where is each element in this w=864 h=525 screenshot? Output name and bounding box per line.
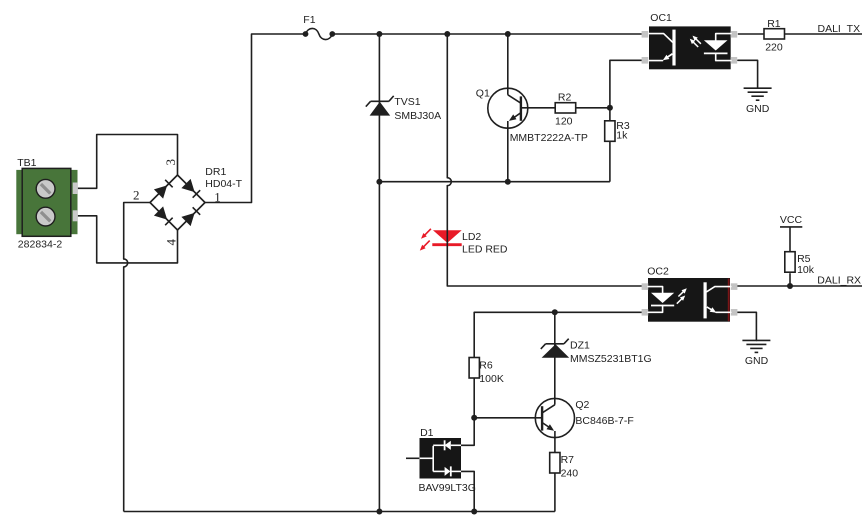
svg-text:LED RED: LED RED (462, 244, 508, 256)
svg-text:Q1: Q1 (476, 87, 490, 99)
fuse F1 (306, 28, 333, 39)
wire OC2 pin 4 to GND (736, 312, 756, 340)
OC2 light arrows (678, 291, 684, 297)
junction bottom rail TVS (376, 509, 382, 515)
wire junction up to OC1 pin 2 (610, 60, 642, 121)
dual diode D1 body (420, 438, 462, 479)
svg-text:R1: R1 (767, 18, 781, 30)
bridge rectifier DR1 outline (150, 175, 205, 230)
wire bridge pin 1 to top rail / fuse (205, 34, 306, 203)
TB1 pad pin 2 (73, 210, 78, 221)
wire R5 bottom to DALI_RX junction (789, 273, 791, 286)
resistor R5 (785, 252, 795, 273)
svg-text:OC1: OC1 (650, 12, 672, 24)
wire continues below hop (123, 267, 125, 512)
terminal block TB1 outlined body (22, 168, 71, 236)
wire Q1 base to R2 (521, 107, 555, 109)
svg-text:R7: R7 (561, 454, 575, 466)
svg-text:Q2: Q2 (575, 399, 589, 411)
wire hop at (447,182) (447, 178, 451, 186)
OC2 pin 2 (642, 309, 649, 316)
resistor R1 (764, 29, 785, 39)
wire fuse F1 to OC1 pin 1 (332, 33, 642, 35)
wire LD2 vertical upper part (446, 34, 448, 178)
transistor Q1 (488, 88, 528, 128)
TB1 screw 2 (36, 207, 55, 226)
svg-text:220: 220 (765, 41, 783, 53)
svg-text:10k: 10k (797, 264, 815, 276)
D1 bottom diode (433, 470, 444, 472)
wire R2 to R3 junction (576, 107, 610, 109)
resistor R2 (555, 103, 576, 113)
junction Q1 emitter (505, 179, 511, 185)
junction TVS1 top (376, 31, 382, 37)
svg-text:3: 3 (163, 159, 178, 166)
junction TVS1 mid (376, 179, 382, 185)
wire R6 bottom to junction (473, 378, 475, 418)
OC2 phototransistor (703, 282, 706, 318)
OC1 LED (716, 34, 731, 41)
svg-text:1: 1 (214, 189, 221, 204)
LED LD2 (red) (433, 230, 462, 243)
wire D1 left stub (406, 457, 420, 459)
wire D1 top lead to junction (461, 418, 474, 446)
wire R3 bottom to y=182 (609, 141, 611, 181)
svg-text:DALI_TX: DALI_TX (818, 23, 861, 35)
svg-text:4: 4 (164, 238, 179, 245)
bottom rail wire (124, 511, 555, 513)
bridge diode (pin3 to pin1 edge) (181, 179, 201, 199)
wire Q1 emitter down to y=182 (507, 121, 509, 182)
wire OC2 pin 3 to DALI_RX (736, 285, 862, 287)
wire TVS1 vertical (top rail to bottom rail) (378, 34, 380, 512)
junction R2/R3/OC1 (607, 105, 613, 111)
wire OC1 pin 3 to R1 (738, 33, 764, 35)
svg-text:GND: GND (746, 103, 770, 115)
pin number 3 (163, 159, 178, 166)
svg-text:R2: R2 (558, 91, 572, 103)
svg-text:BAV99LT3G: BAV99LT3G (419, 482, 476, 494)
OC2 LED (648, 287, 663, 293)
OC1 pin 1 (642, 31, 649, 38)
svg-text:MMSZ5231BT1G: MMSZ5231BT1G (570, 353, 652, 365)
TB1 pad pin 1 (73, 183, 78, 195)
wire OC2 pin 2 to R6 top (474, 312, 642, 357)
svg-text:TVS1: TVS1 (394, 96, 420, 108)
ground (742, 339, 770, 341)
svg-text:VCC: VCC (780, 214, 803, 226)
D1 top diode (433, 444, 444, 446)
OC1 light arrows (695, 38, 701, 44)
D1 internal common lead (420, 457, 434, 459)
junction R6/D1/Q2 base (471, 415, 477, 421)
junction bottom rail D1 (471, 509, 477, 515)
bridge diode (pin4 to pin1 edge) (181, 206, 201, 226)
svg-text:TB1: TB1 (17, 157, 36, 169)
svg-text:DALI_RX: DALI_RX (817, 274, 861, 286)
svg-text:120: 120 (555, 116, 573, 128)
OC1 phototransistor (672, 30, 675, 66)
TB1 screw 1 (36, 179, 55, 198)
bridge diode (pin2 to pin4 edge) (154, 206, 174, 226)
OC2 pin 1 (642, 283, 649, 290)
pin number 4 (164, 238, 179, 245)
wire D1 bottom lead to bottom rail (461, 471, 474, 511)
power VCC (780, 226, 802, 228)
OC2 red stripe (728, 279, 730, 322)
svg-text:1k: 1k (616, 130, 628, 142)
LD2 wire overlay (446, 230, 448, 247)
LD2 light arrows (424, 229, 431, 236)
svg-text:F1: F1 (303, 14, 315, 26)
ground (744, 87, 772, 89)
OC1 pin 2 (642, 57, 649, 64)
wire bridge pin 2 down (with hop) to bottom rail (124, 203, 151, 259)
junction Q1 collector (505, 31, 511, 37)
OC1 pin 3 (731, 31, 738, 38)
wire TB1 pin1 to bridge pin 3 (78, 135, 178, 189)
TVS diode TVS1 (370, 102, 391, 116)
wire LD2 vertical lower part to OC2 pin 1 (447, 186, 642, 286)
svg-text:GND: GND (745, 355, 769, 367)
wire R1 to DALI_TX (785, 33, 863, 35)
OC2 pin 3 (731, 283, 738, 290)
terminal block TB1 green body (16, 170, 77, 234)
svg-text:R6: R6 (479, 360, 493, 372)
svg-text:240: 240 (561, 468, 579, 480)
optocoupler OC2 body (648, 278, 730, 322)
bridge diode (pin2 to pin3 edge) (154, 179, 174, 199)
resistor R7 (550, 453, 560, 474)
svg-text:DR1: DR1 (205, 166, 226, 178)
wire R5 top to VCC (789, 227, 791, 252)
OC1 pin 4 (731, 57, 738, 64)
svg-text:OC2: OC2 (647, 265, 669, 277)
svg-text:2: 2 (133, 188, 140, 203)
wire hop at (124,263) (124, 259, 128, 267)
wire DZ1 branch down to Q2 collector (554, 312, 556, 404)
resistor R6 (469, 358, 479, 379)
svg-text:D1: D1 (420, 427, 434, 439)
optocoupler OC1 body (649, 26, 731, 69)
transistor Q2 (535, 398, 574, 437)
svg-text:BC846B-7-F: BC846B-7-F (575, 415, 633, 427)
wire Q2 base (474, 417, 542, 419)
svg-text:MMBT2222A-TP: MMBT2222A-TP (510, 132, 588, 144)
svg-text:LD2: LD2 (462, 231, 481, 243)
junction R5/DALI_RX (787, 283, 793, 289)
wire R7 bottom to bottom rail (554, 473, 556, 512)
svg-text:100K: 100K (479, 373, 504, 385)
junction LD2 top (444, 31, 450, 37)
resistor R3 (605, 121, 615, 142)
svg-text:282834-2: 282834-2 (18, 239, 63, 251)
wire TB1 pin2 to bridge pin 4 (78, 216, 178, 263)
wire OC1 pin 4 to GND (738, 60, 758, 88)
wire mid horizontal y=182 (379, 181, 610, 183)
junction DZ1 tap (552, 309, 558, 315)
OC2 pin 4 (731, 309, 738, 316)
svg-text:SMBJ30A: SMBJ30A (394, 110, 441, 122)
wire Q2 emitter to R7 (554, 431, 556, 453)
svg-text:DZ1: DZ1 (570, 340, 590, 352)
svg-text:HD04-T: HD04-T (205, 178, 242, 190)
zener diode DZ1 (542, 344, 570, 358)
wire Q1 collector to top rail (507, 34, 509, 95)
